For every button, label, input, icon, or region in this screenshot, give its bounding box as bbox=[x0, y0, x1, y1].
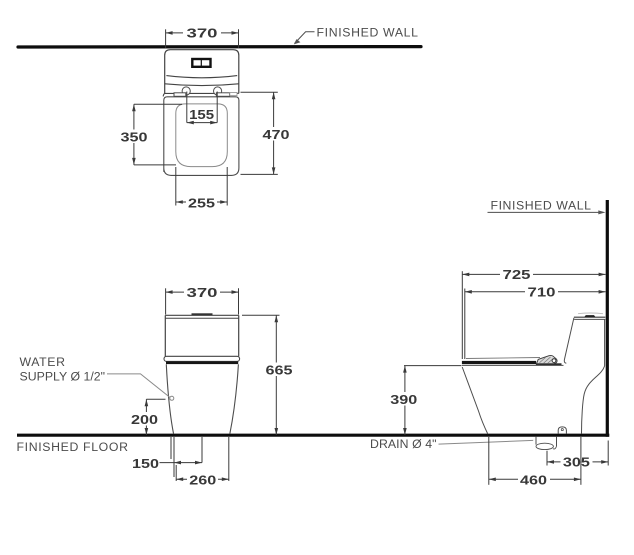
bowl pedestal (front view) bbox=[166, 364, 238, 434]
tank (front view) bbox=[165, 313, 238, 356]
svg-text:200: 200 bbox=[131, 412, 158, 427]
flush button (plan view) bbox=[192, 59, 210, 67]
label FINISHED FLOOR bbox=[17, 440, 129, 454]
hinge left (plan view) bbox=[174, 87, 190, 96]
dimension 370 (plan view) bbox=[166, 26, 239, 49]
dimension 390 (side view) bbox=[388, 366, 462, 435]
shelf line under tank (plan view) bbox=[163, 93, 239, 96]
dimension 350 (plan view) bbox=[118, 104, 182, 165]
leader water supply bbox=[107, 374, 170, 398]
svg-text:470: 470 bbox=[263, 127, 290, 142]
bowl rim (plan view) bbox=[176, 104, 228, 167]
supply bump (side view) bbox=[558, 427, 566, 434]
dimension 150 (below floor, front view) bbox=[132, 437, 202, 477]
dimension 710 (side view) bbox=[465, 285, 606, 360]
dimension 255 (plan view) bbox=[176, 167, 227, 211]
seat outline (plan view) bbox=[164, 97, 239, 176]
dimension 155 (plan view) bbox=[187, 92, 217, 125]
tank body (side view) bbox=[564, 318, 604, 366]
dimension 370 (front view) bbox=[166, 285, 239, 315]
drain pipe (side view) bbox=[536, 437, 557, 450]
dimension 305 (side view) bbox=[547, 441, 608, 470]
svg-text:FINISHED WALL: FINISHED WALL bbox=[317, 26, 419, 40]
finished floor line (thick horizontal across page) bbox=[17, 434, 609, 437]
finished wall line (side view, thick vertical) bbox=[606, 200, 609, 437]
svg-text:460: 460 bbox=[520, 472, 547, 487]
hinge right (plan view) bbox=[214, 87, 238, 96]
label WATER SUPPLY bbox=[20, 355, 106, 383]
svg-text:150: 150 bbox=[132, 456, 159, 471]
svg-text:390: 390 bbox=[390, 392, 417, 407]
label DRAIN bbox=[370, 437, 437, 451]
svg-text:370: 370 bbox=[187, 26, 218, 41]
finished wall line (plan view, thick horizontal) bbox=[18, 45, 421, 49]
svg-text:725: 725 bbox=[503, 267, 531, 282]
svg-text:DRAIN Ø 4": DRAIN Ø 4" bbox=[370, 437, 437, 451]
svg-text:710: 710 bbox=[528, 285, 556, 300]
svg-text:305: 305 bbox=[563, 455, 590, 470]
dimension 665 (front view) bbox=[242, 315, 293, 435]
seat (front view) bbox=[164, 356, 240, 364]
dimension 470 (plan view) bbox=[241, 92, 292, 174]
body rear profile (side view) bbox=[582, 366, 605, 434]
dimension 725 (side view) bbox=[462, 267, 605, 359]
svg-text:155: 155 bbox=[189, 107, 214, 122]
label FINISHED WALL (plan view) bbox=[317, 26, 419, 40]
leader to finished wall (plan) bbox=[294, 32, 315, 45]
dimension 460 (side view) bbox=[489, 437, 581, 487]
bowl front profile (side view) bbox=[462, 367, 488, 434]
label FINISHED WALL (side view) bbox=[488, 198, 606, 214]
tank outline (plan view) bbox=[165, 50, 239, 94]
svg-text:665: 665 bbox=[266, 363, 293, 378]
svg-text:FINISHED WALL: FINISHED WALL bbox=[491, 198, 592, 212]
leader drain bbox=[439, 440, 534, 444]
dimension 200 (front view) bbox=[129, 399, 166, 435]
svg-text:FINISHED FLOOR: FINISHED FLOOR bbox=[17, 440, 129, 454]
water supply point (front view) bbox=[170, 396, 174, 400]
tank lid (side view) bbox=[574, 313, 605, 319]
seat (side view) bbox=[462, 355, 564, 365]
svg-text:260: 260 bbox=[189, 472, 216, 487]
svg-text:350: 350 bbox=[121, 130, 148, 145]
svg-text:255: 255 bbox=[188, 196, 215, 211]
svg-text:WATER: WATER bbox=[20, 355, 66, 369]
svg-text:370: 370 bbox=[187, 285, 218, 300]
dimension 260 (below floor, front view) bbox=[176, 437, 229, 487]
svg-text:SUPPLY Ø 1/2": SUPPLY Ø 1/2" bbox=[20, 370, 106, 384]
